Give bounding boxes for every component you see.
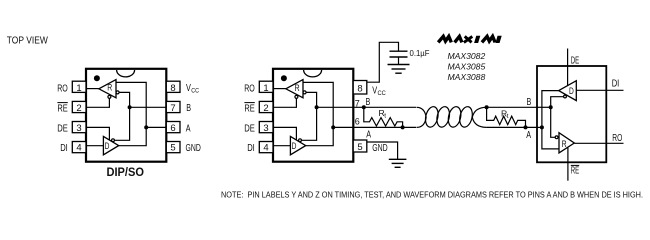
svg-text:B: B	[186, 103, 191, 114]
ground symbol at U2 GND	[389, 159, 407, 167]
U2 wire RE pin2 to receiver enable	[273, 98, 296, 107]
svg-text:D: D	[105, 141, 110, 152]
wire DE at U3	[567, 49, 569, 86]
svg-text:A: A	[186, 123, 191, 134]
svg-text:MAX3088: MAX3088	[448, 72, 486, 82]
svg-text:RE: RE	[57, 104, 68, 115]
svg-text:8: 8	[170, 83, 175, 94]
U1 wire DE pin3 to driver enable	[86, 127, 109, 140]
U3 driver D triangle	[559, 81, 577, 101]
svg-text:MAX3082: MAX3082	[448, 51, 486, 61]
U1 driver D triangle	[103, 136, 118, 154]
capacitor C1 0.1uF	[390, 51, 408, 57]
wire B bus right of twist	[487, 106, 537, 108]
U1 pin 4 (DI)	[60, 142, 86, 155]
svg-text:t: t	[384, 113, 386, 120]
U1 wire RO pin1 to receiver output	[86, 88, 99, 90]
svg-text:A: A	[366, 130, 371, 141]
U2 driver inverting output bubble	[299, 139, 302, 142]
wire DI at U3	[576, 89, 623, 91]
svg-text:3: 3	[76, 123, 81, 134]
svg-text:DI: DI	[612, 79, 620, 90]
U2 pin 5 (GND) box	[353, 140, 388, 154]
U1 pin-1 index dot	[94, 75, 100, 81]
junction B at left Rt	[362, 105, 366, 109]
U1 pin 7 (B)	[166, 101, 191, 114]
svg-text:R: R	[562, 139, 567, 150]
svg-text:6: 6	[170, 123, 175, 134]
U2 pin 2 (RE-bar)	[244, 101, 273, 114]
wire A bus from U2 pin 6	[333, 126, 416, 128]
svg-text:t: t	[507, 113, 509, 120]
svg-text:NOTE: PIN LABELS Y AND Z ON T: NOTE: PIN LABELS Y AND Z ON TIMING, TEST…	[221, 190, 643, 199]
svg-text:DIP/SO: DIP/SO	[107, 165, 145, 179]
svg-text:CC: CC	[191, 88, 199, 95]
wire capacitor to ground	[398, 57, 400, 65]
wire B to U3 receiver inv input	[551, 107, 556, 137]
IC U3 remote transceiver box	[537, 66, 606, 162]
U1 pin 3 (DE)	[57, 122, 86, 135]
svg-text:RO: RO	[57, 84, 68, 95]
svg-text:RE: RE	[244, 104, 255, 115]
svg-text:5: 5	[357, 142, 362, 153]
svg-text:6: 6	[355, 117, 360, 127]
U1 junction B	[128, 105, 132, 109]
svg-text:RO: RO	[612, 133, 622, 144]
U2 package notch	[304, 70, 322, 77]
wire B bus from U2 pin 7	[317, 106, 416, 108]
U2 wire DE pin3 to driver enable	[273, 127, 296, 140]
U1 pin 8 (VCC)	[166, 81, 199, 94]
svg-text:2: 2	[263, 103, 268, 114]
svg-text:4: 4	[76, 143, 81, 154]
IC U1 DIP/SO package body	[86, 69, 166, 162]
resistor Rt (left termination)	[364, 107, 403, 127]
U3 receiver R triangle	[559, 133, 574, 153]
U1 wire net B to pin 7	[130, 106, 167, 108]
U1 receiver enable bubble	[108, 95, 111, 98]
junction A at right Rt	[524, 125, 528, 129]
U1 pin 6 (A)	[166, 122, 191, 135]
U1 driver inverting output bubble	[112, 139, 115, 142]
U1 receiver R triangle	[99, 80, 116, 98]
svg-text:4: 4	[263, 143, 268, 154]
svg-text:MAX3085: MAX3085	[448, 62, 486, 72]
svg-text:A: A	[526, 130, 531, 141]
svg-text:0.1µF: 0.1µF	[410, 48, 430, 58]
wire RE at U3	[567, 148, 569, 181]
U1 pin 5 (GND)	[166, 142, 201, 155]
svg-text:1: 1	[76, 83, 81, 94]
U1 net A: receiver noninv input to driver output	[116, 82, 146, 145]
U1 wire net A to pin 6	[146, 126, 166, 128]
svg-text:5: 5	[170, 143, 175, 154]
svg-text:R: R	[107, 83, 112, 94]
twisted pair cable	[417, 105, 487, 128]
svg-text:2: 2	[76, 103, 81, 114]
svg-text:1: 1	[263, 83, 268, 94]
junction B at right Rt	[485, 105, 489, 109]
RE label U3	[571, 165, 580, 176]
MAXIM logo	[438, 36, 501, 42]
U2 pin 4 (DI)	[247, 142, 273, 155]
svg-text:D: D	[292, 141, 297, 152]
junction A inside U3	[540, 125, 544, 129]
svg-text:7: 7	[355, 98, 360, 108]
U2 wire RO pin1 to receiver output	[273, 88, 286, 90]
junction B inside U3	[549, 105, 553, 109]
svg-text:R: R	[295, 83, 300, 94]
U2 pin 3 (DE)	[244, 122, 273, 135]
U2 pin-1 index dot	[281, 75, 287, 81]
U1 package notch	[117, 70, 135, 77]
svg-text:D: D	[569, 86, 574, 97]
wire U3 driver output to A	[542, 91, 559, 149]
U2 pin 1 (RO)	[244, 81, 273, 94]
svg-text:GND: GND	[372, 143, 388, 154]
svg-text:B: B	[366, 97, 371, 108]
svg-text:DI: DI	[247, 143, 255, 154]
U3 receiver inverting input bubble	[555, 136, 558, 139]
U1 pin 2 (RE-bar)	[57, 101, 86, 114]
U1 receiver inverting input bubble	[116, 91, 119, 94]
svg-text:RE: RE	[571, 165, 580, 176]
resistor Rt (right termination)	[487, 107, 526, 127]
wire GND from U2 pin 5	[367, 142, 398, 159]
svg-text:DE: DE	[57, 124, 68, 135]
U1 net B: receiver inv input to driver inv output	[114, 92, 129, 140]
junction A at left Rt	[401, 125, 405, 129]
svg-text:TOP VIEW: TOP VIEW	[7, 35, 48, 46]
wire A bus right of twist	[487, 126, 537, 128]
svg-text:DE: DE	[571, 55, 580, 66]
U2 net A internal	[303, 82, 333, 145]
U2 junction A internal	[331, 125, 335, 129]
U2 junction B internal	[315, 105, 319, 109]
U2 receiver inverting input bubble	[303, 91, 306, 94]
U2 receiver R triangle	[286, 80, 303, 98]
wire RO at U3	[574, 142, 623, 144]
svg-text:CC: CC	[378, 90, 387, 97]
U2 driver D triangle	[290, 136, 305, 154]
ground symbol at C1	[388, 65, 410, 74]
wire B inside U3	[537, 106, 551, 108]
wire VCC from U2 pin 8	[367, 42, 399, 82]
svg-text:GND: GND	[186, 143, 201, 154]
U2 pin 8 (VCC) box	[353, 81, 386, 97]
svg-text:DE: DE	[244, 124, 255, 135]
U2 wire DI pin4 to driver input	[273, 145, 290, 147]
svg-text:RO: RO	[244, 84, 255, 95]
wire A inside U3	[537, 126, 542, 128]
IC U2 package body	[273, 69, 353, 162]
svg-text:DI: DI	[60, 143, 68, 154]
svg-text:8: 8	[357, 84, 362, 95]
U2 net B internal	[301, 92, 316, 140]
U1 pin 1 (RO)	[57, 81, 86, 94]
wire U3 driver inv output to B	[551, 97, 564, 108]
U1 wire RE pin2 to receiver enable	[86, 98, 109, 107]
svg-text:7: 7	[170, 103, 175, 114]
U2 receiver enable bubble	[295, 95, 298, 98]
svg-text:B: B	[527, 97, 532, 108]
svg-text:3: 3	[263, 123, 268, 134]
U1 wire DI pin4 to driver input	[86, 145, 103, 147]
U3 driver inverting output bubble	[564, 95, 567, 98]
U1 junction A	[144, 125, 148, 129]
